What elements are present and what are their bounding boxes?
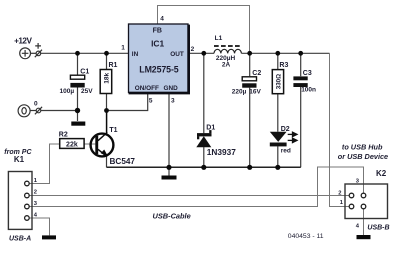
svg-text:or USB Device: or USB Device: [338, 152, 388, 161]
svg-text:C3: C3: [303, 70, 312, 77]
svg-text:C2: C2: [252, 70, 261, 77]
svg-text:18k: 18k: [104, 72, 111, 83]
svg-text:GND: GND: [164, 85, 179, 92]
svg-text:0: 0: [34, 100, 38, 107]
svg-text:100µ: 100µ: [60, 88, 75, 95]
svg-text:2: 2: [338, 190, 341, 196]
svg-text:to USB Hub: to USB Hub: [342, 142, 383, 151]
svg-text:IN: IN: [132, 51, 139, 58]
svg-text:USB-Cable: USB-Cable: [153, 211, 191, 220]
svg-text:16V: 16V: [249, 89, 261, 96]
svg-text:2: 2: [34, 190, 37, 196]
svg-text:C1: C1: [80, 68, 89, 75]
svg-text:5: 5: [149, 98, 153, 105]
svg-text:D2: D2: [281, 126, 290, 133]
svg-text:2A: 2A: [222, 61, 231, 68]
svg-text:L1: L1: [215, 35, 223, 42]
svg-text:+12V: +12V: [14, 37, 32, 46]
svg-text:K1: K1: [14, 155, 25, 164]
svg-text:2: 2: [191, 46, 195, 53]
svg-text:R2: R2: [59, 132, 68, 139]
svg-text:22k: 22k: [66, 142, 78, 149]
svg-text:OUT: OUT: [170, 51, 184, 58]
svg-text:LM2575-5: LM2575-5: [139, 64, 179, 74]
svg-text:100n: 100n: [301, 87, 316, 94]
svg-text:red: red: [281, 147, 291, 154]
svg-text:3: 3: [171, 98, 175, 105]
svg-text:USB-A: USB-A: [9, 236, 31, 243]
svg-text:330Ω: 330Ω: [275, 74, 282, 89]
svg-text:040453 - 11: 040453 - 11: [288, 233, 324, 240]
svg-text:R3: R3: [279, 62, 288, 69]
svg-text:4: 4: [160, 15, 164, 22]
svg-text:BC547: BC547: [110, 157, 136, 166]
svg-text:D1: D1: [206, 125, 215, 132]
svg-text:FB: FB: [153, 28, 162, 35]
svg-text:220µ: 220µ: [232, 89, 247, 96]
svg-text:IC1: IC1: [151, 38, 164, 48]
svg-text:25V: 25V: [81, 88, 93, 95]
svg-text:T1: T1: [109, 127, 117, 134]
svg-text:R1: R1: [109, 62, 118, 69]
svg-text:K2: K2: [376, 169, 387, 178]
svg-text:1N3937: 1N3937: [207, 147, 236, 157]
svg-text:USB-B: USB-B: [367, 225, 389, 232]
svg-text:1: 1: [121, 45, 125, 52]
svg-text:ON/OFF: ON/OFF: [135, 85, 159, 92]
